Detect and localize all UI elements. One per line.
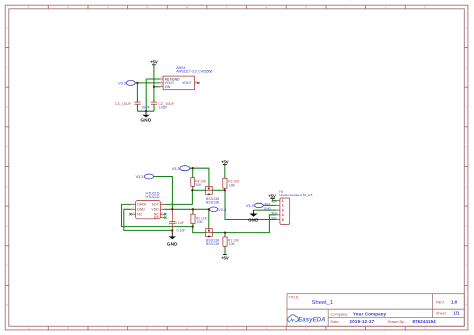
svg-text:10K: 10K	[229, 242, 236, 246]
svg-text:V3.3: V3.3	[246, 204, 254, 208]
svg-text:G: G	[266, 7, 268, 9]
svg-text:Your Company: Your Company	[353, 311, 387, 316]
svg-text:10UF: 10UF	[159, 105, 168, 109]
svg-text:BSS138: BSS138	[206, 242, 219, 246]
svg-text:2: 2	[282, 204, 284, 208]
svg-text:10UF: 10UF	[141, 106, 150, 110]
svg-text:GND: GND	[167, 241, 178, 246]
svg-text:Company:: Company:	[331, 311, 349, 316]
svg-text:Date:: Date:	[331, 320, 340, 324]
svg-text:BSS138: BSS138	[206, 201, 219, 205]
svg-text:Header-Female-2.54_1x5: Header-Female-2.54_1x5	[279, 193, 312, 197]
svg-text:SDA: SDA	[271, 211, 278, 215]
svg-text:J: J	[385, 7, 386, 9]
svg-text:Sheet_1: Sheet_1	[312, 300, 334, 306]
svg-text:GND: GND	[264, 207, 272, 211]
svg-text:V3.3: V3.3	[218, 208, 226, 212]
svg-text:EP: EP	[154, 215, 159, 219]
svg-text:+5V: +5V	[221, 256, 229, 261]
svg-text:SCL: SCL	[271, 216, 277, 220]
svg-text:GND: GND	[140, 118, 151, 123]
svg-text:VOUT: VOUT	[182, 81, 191, 85]
svg-text:VDD: VDD	[151, 208, 159, 212]
svg-text:876244154: 876244154	[413, 319, 437, 324]
svg-text:GND: GND	[248, 217, 258, 222]
svg-text:TITLE:: TITLE:	[289, 295, 300, 299]
svg-text:Sheet:: Sheet:	[436, 312, 447, 316]
svg-text:5: 5	[282, 218, 284, 222]
svg-text:C1 0.1uF: C1 0.1uF	[169, 221, 185, 225]
svg-text:3: 3	[282, 208, 284, 212]
svg-text:AMS1117-3.3_C426566: AMS1117-3.3_C426566	[176, 70, 212, 74]
svg-text:1.0: 1.0	[451, 299, 458, 304]
svg-text:1/1: 1/1	[454, 311, 460, 316]
svg-text:0.1uF: 0.1uF	[177, 229, 186, 233]
svg-text:VIN: VIN	[165, 85, 171, 89]
svg-text:2019-12-27: 2019-12-27	[350, 319, 375, 324]
svg-text:3V3: 3V3	[264, 202, 270, 206]
svg-text:NC: NC	[137, 213, 143, 217]
svg-text:SCK: SCK	[152, 203, 160, 207]
svg-text:+5V: +5V	[271, 199, 278, 203]
svg-text:4: 4	[282, 213, 284, 217]
svg-text:+5V: +5V	[221, 160, 229, 165]
svg-text:G: G	[266, 328, 268, 330]
svg-text:10K: 10K	[196, 183, 203, 187]
svg-text:1: 1	[282, 199, 284, 203]
svg-text:GND: GND	[137, 208, 145, 212]
svg-text:10K: 10K	[229, 184, 236, 188]
svg-text:J: J	[385, 328, 386, 330]
svg-text:V3.3: V3.3	[118, 81, 126, 85]
svg-text:V3.3: V3.3	[172, 167, 180, 171]
svg-text:EasyEDA: EasyEDA	[298, 318, 325, 324]
svg-text:Drawn By:: Drawn By:	[388, 320, 406, 324]
svg-text:V3.3: V3.3	[136, 175, 144, 179]
svg-text:HTU21D: HTU21D	[146, 195, 160, 199]
svg-text:+5V: +5V	[150, 60, 158, 65]
svg-text:REV:: REV:	[436, 299, 445, 304]
svg-text:+5V: +5V	[268, 193, 276, 198]
svg-text:10K: 10K	[197, 220, 204, 224]
svg-text:C3_10UF: C3_10UF	[115, 102, 132, 106]
svg-text:DATA: DATA	[137, 203, 146, 207]
